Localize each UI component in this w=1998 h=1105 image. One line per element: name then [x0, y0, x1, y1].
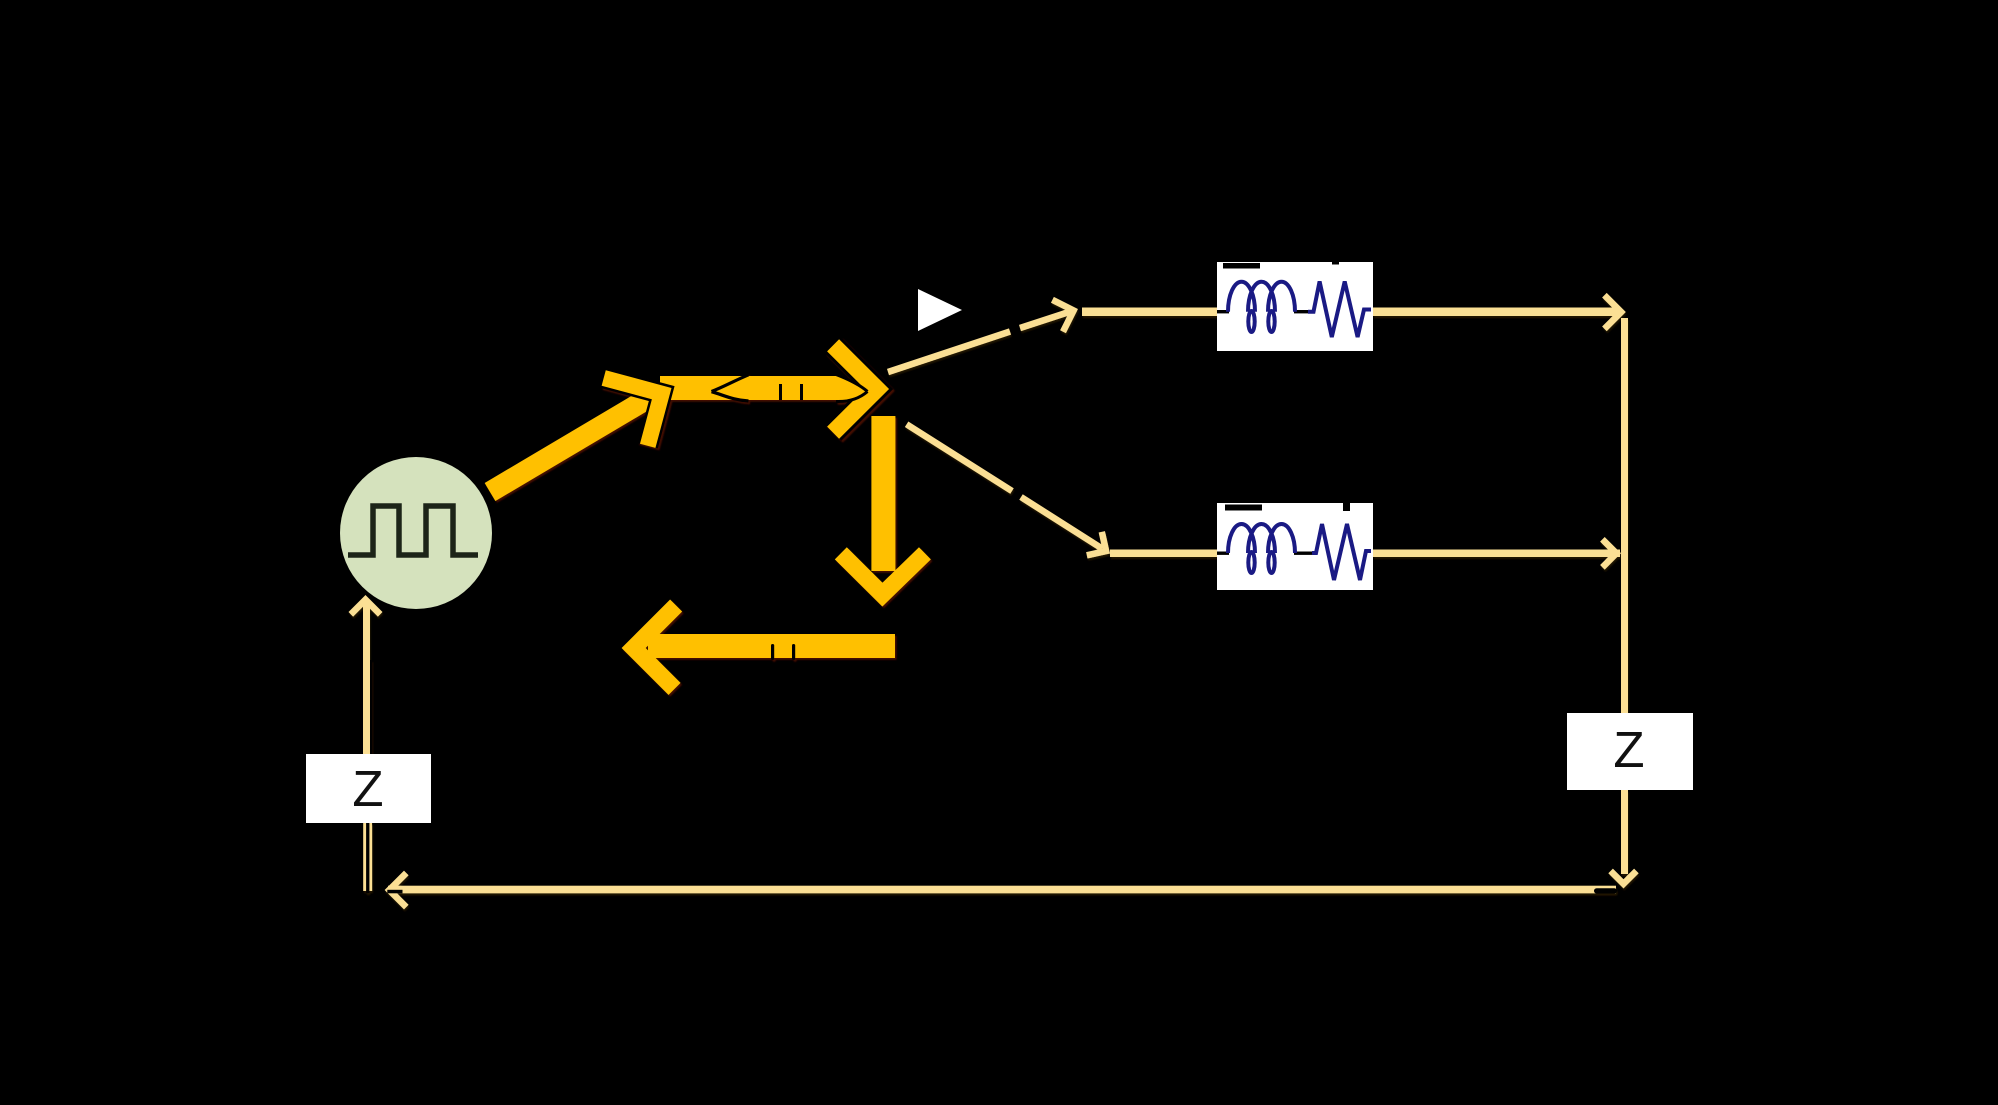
incident wave arrow shaft (orange diagonal from source) — [490, 396, 652, 492]
top branch arrowhead into bus — [1604, 295, 1621, 329]
bottom branch arrowhead into bus — [1602, 539, 1616, 567]
resistor R (blue) — [1312, 524, 1371, 580]
black connector remnant right — [1594, 888, 1617, 893]
bottom load box (inductor + resistor) — [1217, 503, 1373, 590]
top load box (inductor + resistor) — [1217, 262, 1373, 351]
tick 1 — [779, 384, 782, 400]
svg-text:Z: Z — [352, 760, 383, 817]
lead stubs (black) — [1217, 552, 1229, 555]
white triangle marker — [918, 289, 962, 331]
transmission line arrow head (chevron with black outline) — [833, 345, 877, 432]
resistor R (blue) — [1308, 281, 1371, 337]
inductor L (blue) — [1228, 282, 1295, 332]
ground return wire (bottom) — [388, 886, 1616, 894]
black connector remnant left — [387, 890, 402, 894]
right bus down arrowhead — [1611, 871, 1637, 884]
impedance Z (right) — [1567, 713, 1693, 790]
pulse generator source — [340, 457, 492, 609]
lead stubs (black) — [1217, 310, 1229, 313]
clipped label mark — [1223, 263, 1260, 269]
impedance Z (left) — [306, 754, 431, 823]
left return wire (vertical) — [351, 600, 380, 893]
inductor L (blue) — [1228, 524, 1295, 573]
return wire left arrowhead — [389, 873, 406, 907]
reflected wave arrow (orange, leftward) — [634, 606, 895, 689]
transmitted wave arrow (orange, downward) — [841, 416, 925, 595]
clipped label mark — [1225, 505, 1262, 511]
bottom branch wire — [1110, 550, 1217, 558]
inline reflected-pulse mark (black) — [712, 375, 749, 401]
svg-text:Z: Z — [1613, 721, 1644, 778]
black beak outline — [836, 375, 868, 402]
top branch wire — [1082, 308, 1217, 317]
dashed branch wire to bottom load — [907, 424, 1107, 555]
transmission line pulse arrow (orange horizontal) — [660, 375, 868, 402]
tick 2 — [800, 384, 803, 400]
right bus wire (vertical) — [1621, 318, 1628, 713]
incident wave arrow head (black outline + orange chevron) — [604, 378, 662, 446]
dashed branch wire to top load — [888, 300, 1074, 372]
